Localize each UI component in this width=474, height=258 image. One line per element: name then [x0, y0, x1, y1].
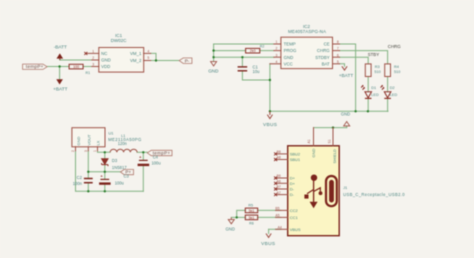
svg-text:D3: D3 — [112, 158, 118, 163]
svg-text:GND: GND — [284, 55, 294, 60]
svg-text:LED: LED — [371, 93, 379, 97]
svg-text:D-: D- — [290, 192, 295, 197]
svg-text:VBUS: VBUS — [290, 227, 301, 232]
svg-text:A1: A1 — [307, 139, 311, 143]
svg-text:+BATT: +BATT — [339, 73, 354, 78]
svg-text:D+: D+ — [290, 181, 296, 186]
svg-text:BAT: BAT — [322, 61, 330, 66]
svg-text:VBUS: VBUS — [261, 241, 275, 247]
svg-text:D-: D- — [290, 187, 295, 192]
svg-text:5k1: 5k1 — [249, 209, 255, 213]
svg-text:VOUT: VOUT — [87, 134, 92, 146]
svg-text:GND: GND — [311, 149, 316, 158]
svg-text:SBU2: SBU2 — [290, 152, 301, 157]
svg-text:VCC: VCC — [284, 61, 293, 66]
svg-text:R6: R6 — [249, 221, 254, 225]
svg-text:tempP+: tempP+ — [26, 64, 44, 69]
svg-text:+BATT: +BATT — [53, 87, 68, 92]
svg-text:GND: GND — [226, 227, 235, 232]
svg-text:GND: GND — [208, 68, 219, 73]
svg-text:USB_C_Receptacle_USB2.0: USB_C_Receptacle_USB2.0 — [343, 192, 405, 197]
svg-text:120n: 120n — [118, 141, 128, 146]
svg-text:2k0: 2k0 — [250, 49, 256, 53]
svg-text:DW02C: DW02C — [111, 38, 128, 43]
svg-text:A5: A5 — [275, 214, 279, 218]
svg-text:R3: R3 — [375, 65, 380, 69]
svg-text:U1: U1 — [108, 131, 114, 136]
svg-text:100u: 100u — [152, 161, 161, 166]
svg-text:STDBY: STDBY — [315, 55, 330, 60]
svg-text:TEMP: TEMP — [284, 42, 296, 47]
svg-text:SHIELD: SHIELD — [332, 149, 337, 164]
svg-text:CHRG: CHRG — [317, 48, 330, 53]
svg-text:C4: C4 — [153, 154, 159, 159]
svg-text:5: 5 — [147, 56, 149, 60]
svg-text:C2: C2 — [77, 175, 83, 180]
svg-text:510: 510 — [394, 70, 400, 74]
svg-text:VBUS: VBUS — [263, 122, 277, 128]
svg-text:C3: C3 — [124, 174, 130, 179]
svg-text:A7: A7 — [277, 191, 281, 195]
svg-text:1: 1 — [276, 40, 278, 44]
svg-text:D1: D1 — [371, 86, 376, 90]
svg-text:B5: B5 — [275, 207, 279, 211]
svg-text:100u: 100u — [115, 181, 124, 186]
svg-text:1: 1 — [92, 50, 94, 54]
svg-text:VM_2: VM_2 — [130, 58, 142, 63]
svg-text:R2: R2 — [260, 45, 265, 49]
svg-text:LX: LX — [95, 140, 100, 145]
svg-text:P-: P- — [185, 58, 190, 63]
svg-text:GND: GND — [341, 112, 350, 117]
svg-text:100: 100 — [73, 65, 79, 69]
svg-text:A4: A4 — [278, 226, 282, 230]
svg-text:2: 2 — [71, 150, 75, 152]
svg-text:10u: 10u — [253, 69, 261, 74]
svg-text:-BATT: -BATT — [54, 44, 67, 49]
svg-text:SBU1: SBU1 — [290, 157, 301, 162]
svg-text:STBY: STBY — [368, 52, 380, 57]
svg-text:2: 2 — [92, 56, 94, 60]
svg-text:A6: A6 — [277, 180, 281, 184]
svg-text:A8: A8 — [277, 156, 281, 160]
svg-text:R5: R5 — [248, 203, 253, 207]
svg-text:ME4057ASPG-NA: ME4057ASPG-NA — [288, 29, 326, 34]
svg-text:CC1: CC1 — [290, 215, 299, 220]
svg-text:6: 6 — [337, 53, 339, 57]
svg-text:B6: B6 — [277, 174, 281, 178]
svg-text:NC: NC — [101, 51, 107, 56]
svg-text:VDD: VDD — [101, 64, 110, 69]
svg-text:CC2: CC2 — [290, 208, 299, 213]
svg-text:510: 510 — [374, 70, 380, 74]
svg-text:GND: GND — [76, 137, 81, 146]
svg-text:CE: CE — [324, 42, 330, 47]
svg-text:R4: R4 — [394, 65, 399, 69]
svg-text:B7: B7 — [277, 185, 281, 189]
svg-text:CHRG: CHRG — [388, 44, 402, 49]
svg-text:100n: 100n — [73, 181, 83, 186]
svg-text:D2: D2 — [390, 86, 395, 90]
svg-text:7: 7 — [337, 47, 339, 51]
svg-text:4: 4 — [147, 50, 149, 54]
svg-text:1N5817: 1N5817 — [112, 165, 128, 170]
svg-text:3: 3 — [92, 63, 94, 67]
svg-text:LED: LED — [390, 93, 398, 97]
svg-text:8: 8 — [337, 40, 339, 44]
svg-text:GND: GND — [101, 58, 111, 63]
svg-text:5k1: 5k1 — [249, 216, 255, 220]
svg-text:5: 5 — [337, 60, 339, 64]
svg-text:R1: R1 — [86, 71, 91, 75]
svg-text:4: 4 — [276, 60, 278, 64]
svg-text:3: 3 — [84, 150, 88, 152]
svg-text:S1: S1 — [327, 139, 331, 143]
svg-text:VM_1: VM_1 — [130, 51, 142, 56]
svg-text:3: 3 — [276, 53, 278, 57]
svg-text:B8: B8 — [277, 150, 281, 154]
svg-text:1: 1 — [93, 150, 97, 152]
svg-text:PROG: PROG — [284, 48, 297, 53]
svg-text:D+: D+ — [290, 176, 296, 181]
svg-text:L1: L1 — [121, 134, 125, 138]
svg-text:2: 2 — [276, 47, 278, 51]
